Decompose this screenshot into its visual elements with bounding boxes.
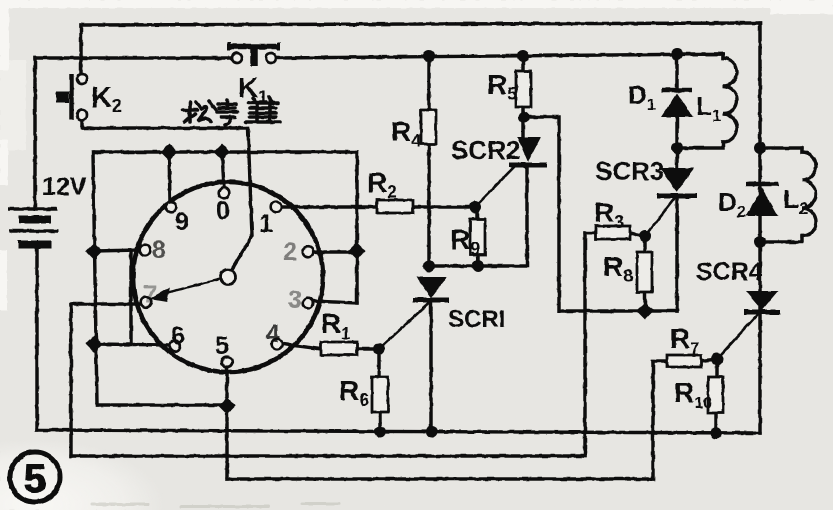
node bus contact0 [214, 144, 231, 161]
resistor R3 [596, 226, 630, 239]
wire dial top bus [94, 150, 357, 153]
node contact 3 [303, 298, 314, 309]
wire contact5 drop [225, 367, 228, 479]
wire right edge vertical rail [758, 23, 761, 433]
wire R4 top riser [427, 56, 430, 110]
svg-text:SCR3: SCR3 [595, 156, 664, 186]
node left box c8 [86, 243, 103, 260]
thyristor SCR4 [744, 291, 780, 312]
thyristor SCR2 [509, 137, 547, 165]
resistor R4 [421, 110, 436, 144]
resistor R10 [708, 377, 723, 413]
node L2 bottom [754, 236, 766, 248]
wire K2 top contact riser [79, 25, 82, 74]
wire L1 top lead [677, 52, 723, 55]
node R4 top [423, 50, 435, 62]
wire contact3 to right box [311, 301, 357, 303]
wire R8 top lead [643, 236, 646, 252]
dial wiper arm [162, 279, 220, 294]
wire contact9 riser [169, 152, 170, 202]
wire ground bus bottom [37, 430, 760, 433]
wire contact7 drop to SCR3 gate bus [69, 304, 72, 456]
node D1 bottom [671, 142, 683, 154]
node SCR2 gate [469, 201, 481, 213]
node R5 top [517, 50, 529, 62]
wire R3 left lead [585, 231, 596, 234]
node box bottom c5 [219, 398, 236, 415]
svg-text:7: 7 [143, 281, 157, 309]
node bus contact9 [161, 144, 178, 161]
wire SCR2 cathode down and left [429, 166, 527, 266]
node SCR1 anode [423, 260, 435, 272]
wire contact8 to left box [95, 250, 140, 251]
node contact 5 [222, 357, 233, 368]
svg-text:9: 9 [175, 208, 189, 236]
wire riser to R3 left [583, 233, 586, 456]
wire R6 top lead [377, 349, 380, 377]
wire SCR1 cathode drop [429, 301, 432, 432]
node SCR1 ground [426, 426, 438, 438]
node SCR2 anode [519, 112, 530, 123]
node D1 top [671, 48, 683, 60]
wire contact1 to R2 [283, 205, 377, 208]
diode D2 [746, 184, 778, 216]
wire SCR4 gate bus bottom [227, 477, 653, 480]
wire R6 bottom lead [378, 412, 381, 432]
wire L2 top lead [760, 146, 802, 149]
node contact 4 [272, 339, 283, 350]
wire K1 right to L1 top [276, 54, 723, 58]
dial circle [133, 182, 323, 372]
wire D1 bottom lead [675, 117, 678, 167]
node right box c2 [349, 243, 366, 260]
wire riser to R7 left [651, 361, 654, 479]
wire left box bottom [97, 403, 227, 406]
wire contact2 to right box [312, 250, 357, 253]
switch K1 [228, 42, 280, 66]
wire battery top lead [33, 58, 36, 208]
svg-text:6: 6 [171, 322, 185, 350]
dial digits [143, 197, 302, 360]
bottom faint smudges [90, 502, 340, 508]
dial contacts [140, 188, 314, 368]
resistor R7 [667, 355, 701, 367]
diode D1 [661, 90, 693, 117]
node contact 1 [271, 202, 282, 213]
node contact 0 [219, 188, 230, 199]
wire L1 top corner [721, 54, 724, 58]
figure number circled 5 [10, 452, 60, 502]
node R10 ground [710, 427, 722, 439]
svg-text:5: 5 [24, 457, 46, 501]
node R9 bottom [472, 260, 484, 272]
node R6 ground [374, 426, 386, 438]
wire battery negative drop [35, 248, 38, 430]
resistor R6 [372, 377, 388, 412]
node contact 9 [166, 202, 177, 213]
L1 coil [723, 58, 737, 142]
wire R7 right lead [701, 359, 717, 361]
wire R7 left lead [653, 359, 667, 362]
svg-text:12V: 12V [42, 173, 87, 201]
node R1 R6 gate [373, 343, 385, 355]
wire K2 bottom lead down [80, 120, 83, 128]
wire SCR1 gate diagonal [379, 302, 430, 349]
resistor R1 [321, 342, 357, 355]
wire R10 top lead [715, 359, 718, 377]
thyristor SCR1 [413, 277, 449, 300]
wire R1 to gate node [357, 347, 379, 350]
resistor R9 [470, 219, 485, 255]
wire R8 bottom lead [643, 292, 646, 311]
svg-text:1: 1 [259, 210, 273, 238]
wire R2 to SCR2 gate node [413, 205, 475, 208]
wire R9 bottom lead [476, 255, 479, 266]
node contact 6 [170, 341, 181, 352]
label dial chinese [183, 97, 280, 125]
svg-text:SCR4: SCR4 [696, 258, 763, 286]
resistor R2 [377, 200, 413, 213]
wire SCR3 cathode drop [675, 198, 678, 311]
svg-text:2: 2 [283, 238, 297, 266]
resistor R8 [637, 252, 652, 292]
svg-text:0: 0 [216, 197, 230, 225]
wire R3 right lead to gate node [630, 233, 645, 236]
wire K2 to dial wiper horizontal [82, 126, 248, 129]
wire wiper feed vertical [231, 128, 252, 271]
wire D1 top lead [675, 54, 678, 87]
wire contact6 to left box [95, 344, 170, 345]
wire contact4 to R1 [283, 344, 321, 349]
node SCR4 gate [711, 353, 723, 365]
wire top bus from K2 top to right edge [81, 23, 760, 25]
wire L1 bottom lead [677, 142, 723, 148]
svg-text:SCRI: SCRI [448, 306, 505, 333]
wire right box vertical [355, 152, 358, 303]
node contact 7 [141, 297, 152, 308]
battery 12V [8, 209, 58, 245]
wire R5 top riser [521, 56, 524, 71]
wire tie contacts8-6 vertical [129, 251, 132, 344]
svg-text:5: 5 [215, 332, 229, 360]
node contact 2 [303, 247, 314, 258]
wire contact0 riser [222, 152, 224, 188]
node L2 top [754, 142, 766, 154]
svg-text:8: 8 [152, 236, 166, 264]
wire L2 top corner [800, 148, 803, 152]
wire battery positive to K1 left [35, 56, 232, 59]
wire R10 bottom lead [714, 413, 717, 433]
resistor R5 [516, 71, 531, 107]
wire R5 bottom lead [521, 107, 524, 139]
svg-text:4: 4 [266, 320, 280, 348]
wire SCR4 gate diagonal [717, 313, 759, 359]
wire R9 hanger [475, 207, 478, 219]
switch K2 [56, 74, 87, 120]
wire left box vertical [93, 152, 97, 405]
thyristor SCR3 [657, 168, 697, 196]
wire SCR2 gate diagonal [475, 165, 516, 207]
node contact 8 [140, 245, 151, 256]
wire SCR2 anode branch right [524, 117, 677, 311]
wire SCR3 gate diagonal [645, 199, 674, 236]
dial wiper center [221, 270, 236, 285]
wire R4 bottom lead [427, 144, 430, 267]
wire contact7 horizontal [71, 302, 141, 305]
node left box c6 [86, 336, 103, 353]
wire L2 bottom lead [760, 236, 802, 242]
wire SCR3 gate bus [71, 454, 585, 457]
node R8 bottom [637, 303, 654, 320]
node SCR3 gate [639, 230, 651, 242]
svg-text:SCR2: SCR2 [451, 135, 520, 165]
L2 coil [802, 152, 816, 236]
svg-text:3: 3 [288, 286, 302, 314]
